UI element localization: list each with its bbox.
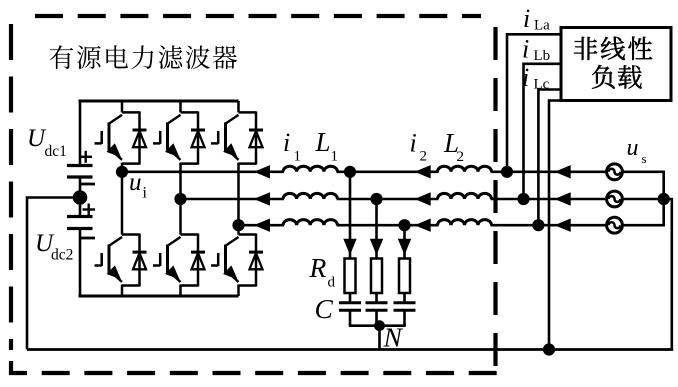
load label char 性 xyxy=(628,37,652,60)
inductor L1 phase a xyxy=(283,166,338,172)
nonlinear load box xyxy=(561,28,671,101)
wire neutral left run xyxy=(27,198,80,350)
wire phase c inverter to L1 xyxy=(239,224,285,227)
current arrow i1 phase a xyxy=(415,165,431,178)
current arrow is phase a xyxy=(555,165,571,178)
load label char 线 xyxy=(601,37,625,60)
capacitor Udc2 plus polarity mark xyxy=(83,204,96,216)
svg-text:C: C xyxy=(315,293,334,324)
inductor L2 phase c xyxy=(437,220,491,226)
inductor L2 phase a xyxy=(437,166,491,172)
svg-text:2: 2 xyxy=(457,149,465,165)
AC source us phase a xyxy=(607,164,623,180)
node N xyxy=(374,320,385,331)
title char 滤 xyxy=(158,45,182,69)
wire node N to bottom neutral xyxy=(378,326,381,350)
node phase a load tap xyxy=(501,166,513,178)
diode D1 xyxy=(122,111,147,164)
node phase c filter tap xyxy=(398,219,410,231)
wire inverter leg a xyxy=(121,101,124,112)
title char 电 xyxy=(106,45,128,68)
load label char 负 xyxy=(592,65,615,89)
wire resistor to capacitor branch c xyxy=(403,293,406,303)
wire filter branch a drop xyxy=(349,172,352,259)
capacitor C branch c xyxy=(394,301,416,304)
wire capacitor to neutral bus branch c xyxy=(403,310,406,326)
current arrow i1 phase b xyxy=(415,192,431,205)
diode D5 xyxy=(181,234,206,287)
node phase b filter tap xyxy=(370,193,382,205)
current arrow inverter side phase c xyxy=(254,219,270,232)
current arrow branch b xyxy=(370,239,383,255)
transistor Q6 (lower IGBT phase c) xyxy=(211,237,239,282)
inductor L1 phase c xyxy=(283,220,338,226)
resistor Rd branch b xyxy=(371,259,382,294)
wire load neutral xyxy=(549,101,561,350)
current arrow is phase c xyxy=(555,219,571,232)
capacitor C branch a xyxy=(339,301,361,304)
node phase c inverter junction xyxy=(232,219,244,231)
svg-text:dc2: dc2 xyxy=(51,247,73,264)
resistor Rd branch c xyxy=(399,259,410,294)
current arrow inverter side phase b xyxy=(254,192,270,205)
wire phase b L2 to source xyxy=(491,198,606,201)
current arrow branch c xyxy=(398,239,411,255)
current arrow inverter side phase a xyxy=(254,165,270,178)
svg-text:R: R xyxy=(309,252,327,283)
node phase c load tap xyxy=(532,219,544,231)
current arrow branch a xyxy=(343,239,356,255)
inductor L1 phase b xyxy=(283,193,338,199)
node load neutral junction xyxy=(543,343,555,355)
wire load phase b xyxy=(524,64,562,199)
node phase a filter tap xyxy=(344,166,356,178)
diode D2 xyxy=(181,111,206,164)
capacitor Udc1 plus polarity mark xyxy=(80,151,93,163)
transistor Q3 (upper IGBT phase c) xyxy=(211,115,239,160)
svg-text:N: N xyxy=(383,322,404,353)
wire inverter leg b xyxy=(179,101,182,112)
current arrow is phase b xyxy=(555,192,571,205)
wire filter branch b drop xyxy=(375,199,378,259)
svg-text:2: 2 xyxy=(420,149,428,165)
wire resistor to capacitor branch b xyxy=(375,293,378,303)
diode D6 xyxy=(239,234,264,287)
svg-text:i: i xyxy=(283,128,290,157)
transistor Q5 (lower IGBT phase b) xyxy=(153,237,181,282)
svg-text:1: 1 xyxy=(331,149,339,165)
wire phase c source to grid xyxy=(623,224,665,227)
diode D3 xyxy=(239,111,264,164)
wire phase b L1 to L2 xyxy=(337,198,439,201)
DC bus negative rail xyxy=(79,295,239,298)
current arrow i1 phase c xyxy=(415,219,431,232)
svg-text:i: i xyxy=(522,63,529,92)
svg-text:d: d xyxy=(328,275,336,291)
wire bottom neutral run xyxy=(27,348,673,351)
wire filter neutral bus xyxy=(349,324,406,327)
wire source common vertical xyxy=(662,171,665,227)
transistor Q2 (upper IGBT phase b) xyxy=(153,115,181,160)
svg-text:Lb: Lb xyxy=(534,48,551,64)
node DC midpoint xyxy=(73,190,88,205)
diode D4 xyxy=(122,234,147,287)
svg-text:i: i xyxy=(410,129,417,158)
load label char 非 xyxy=(574,37,597,60)
node phase a inverter junction xyxy=(116,166,128,178)
capacitor Udc1 xyxy=(67,166,95,185)
svg-text:L: L xyxy=(315,127,331,157)
wire phase c L1 to L2 xyxy=(337,224,439,227)
AC source us phase c xyxy=(607,217,623,233)
svg-text:1: 1 xyxy=(294,149,302,165)
wire load phase c xyxy=(538,90,561,226)
node source common xyxy=(658,193,670,205)
wire phase a inverter to L1 xyxy=(122,171,284,174)
node phase b inverter junction xyxy=(174,193,186,205)
wire capacitor to neutral bus branch b xyxy=(375,310,378,326)
wire load phase a xyxy=(507,34,561,172)
svg-text:Lc: Lc xyxy=(534,77,550,93)
title char 波 xyxy=(186,46,210,70)
inductor L2 phase b xyxy=(437,193,491,199)
APF boundary dashed box xyxy=(11,16,497,374)
title char 源 xyxy=(77,46,101,69)
svg-text:s: s xyxy=(642,151,647,166)
wire resistor to capacitor branch a xyxy=(349,293,352,303)
node phase b load tap xyxy=(517,193,529,205)
svg-text:i: i xyxy=(143,185,148,202)
svg-text:u: u xyxy=(129,169,142,196)
wire phase b inverter to L1 xyxy=(181,198,285,201)
load label char 载 xyxy=(618,65,642,88)
DC bus left wire xyxy=(79,100,82,166)
transistor Q4 (lower IGBT phase a) xyxy=(95,237,123,282)
svg-text:i: i xyxy=(523,4,530,33)
svg-text:La: La xyxy=(534,18,550,34)
title char 力 xyxy=(132,45,154,69)
resistor Rd branch a xyxy=(345,259,356,294)
title char 有 xyxy=(50,45,74,69)
wire phase a L2 to source xyxy=(491,171,606,174)
wire filter branch c drop xyxy=(403,225,406,258)
svg-text:dc1: dc1 xyxy=(45,143,67,160)
wire inverter leg c xyxy=(237,101,240,112)
capacitor C branch b xyxy=(366,301,388,304)
transistor Q1 (upper IGBT phase a) xyxy=(95,115,123,160)
wire neutral right run xyxy=(664,199,672,350)
capacitor Udc2 xyxy=(67,217,95,239)
AC source us phase b xyxy=(607,191,623,207)
svg-text:i: i xyxy=(522,35,529,64)
wire phase a source to grid xyxy=(623,171,665,174)
wire capacitor to neutral bus branch a xyxy=(349,310,352,326)
title char 器 xyxy=(213,46,237,69)
wire phase a L1 to L2 xyxy=(337,171,439,174)
DC bus positive rail xyxy=(79,100,239,103)
svg-text:u: u xyxy=(627,135,639,161)
wire phase b source to grid xyxy=(623,198,665,201)
wire phase c L2 to source xyxy=(491,224,606,227)
